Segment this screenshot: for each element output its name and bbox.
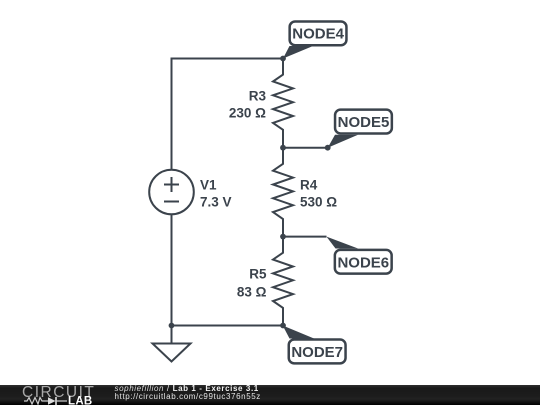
footer bar <box>0 385 540 405</box>
ground <box>171 326 173 344</box>
NODE7 pointer <box>283 326 314 339</box>
wire left vertical (top, to V1) <box>171 58 173 170</box>
node junction dot D (ground left) <box>169 323 175 329</box>
wire top horizontal <box>172 58 284 60</box>
svg-text:NODE6: NODE6 <box>337 254 389 271</box>
node junction dot C (NODE6) <box>280 234 286 240</box>
node NODE5 <box>335 110 392 134</box>
node junction dot E (NODE7) <box>280 323 286 329</box>
resistor R3 <box>273 59 293 148</box>
resistor R5 <box>273 237 293 326</box>
svg-text:NODE4: NODE4 <box>292 26 344 43</box>
NODE6 pointer <box>327 237 359 249</box>
node junction dot B (NODE5 left) <box>280 145 286 151</box>
node junction dot A (NODE4) <box>280 56 286 62</box>
svg-text:7.3 V: 7.3 V <box>200 195 232 210</box>
svg-text:83 Ω: 83 Ω <box>237 285 267 300</box>
resistor R4 <box>273 148 293 237</box>
svg-text:R4: R4 <box>300 178 318 193</box>
wire bottom horizontal <box>172 325 284 327</box>
node NODE4 <box>290 21 347 45</box>
voltage source V1 <box>149 170 194 215</box>
svg-text:230 Ω: 230 Ω <box>229 106 266 121</box>
node NODE7 <box>289 340 346 364</box>
wire NODE5 stub <box>283 147 328 149</box>
svg-text:LAB: LAB <box>68 395 93 405</box>
node NODE6 <box>335 250 392 274</box>
CircuitLab logo <box>22 385 122 405</box>
svg-text:530 Ω: 530 Ω <box>300 195 337 210</box>
wire NODE6 stub <box>283 236 327 238</box>
svg-text:R3: R3 <box>249 89 267 104</box>
footer text <box>115 385 261 401</box>
NODE5 pointer <box>328 135 358 148</box>
svg-text:NODE5: NODE5 <box>338 114 390 131</box>
NODE4 pointer <box>283 46 313 59</box>
svg-text:R5: R5 <box>249 267 267 282</box>
wire left vertical (V1 to ground node) <box>171 214 173 325</box>
svg-text:V1: V1 <box>200 178 217 193</box>
node junction dot B2 (NODE5 right) <box>325 145 331 151</box>
svg-text:NODE7: NODE7 <box>291 344 343 361</box>
